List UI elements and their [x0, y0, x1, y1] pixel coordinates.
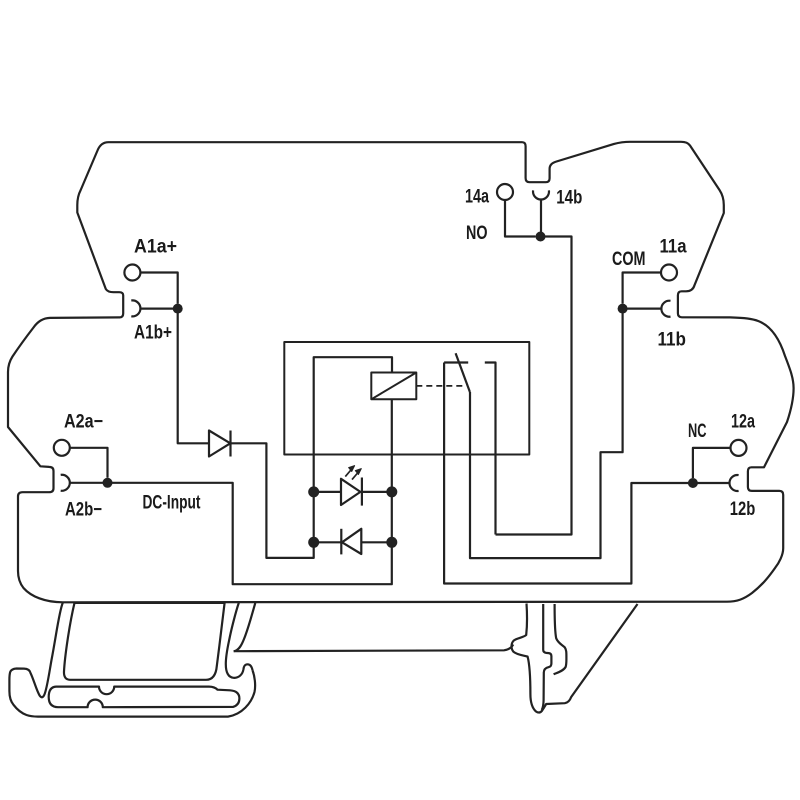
- relay box: [284, 342, 529, 455]
- terminal cup A2b: [61, 475, 70, 491]
- svg-text:A1a+: A1a+: [134, 237, 177, 258]
- din rail foot hook tip: [226, 603, 253, 678]
- terminal 11a: [661, 265, 677, 281]
- wire 14b to junction: [540, 200, 542, 237]
- LED junction top-right: [386, 486, 397, 497]
- svg-text:A2b−: A2b−: [65, 500, 102, 521]
- terminal cup 11b: [661, 301, 670, 317]
- housing body outline: [8, 142, 794, 603]
- terminal cup A1b: [131, 300, 140, 316]
- wire diode row: [314, 541, 392, 543]
- terminal 12a: [731, 440, 747, 456]
- diode V1: [209, 431, 230, 457]
- rail connect line: [234, 645, 514, 652]
- junction A1: [173, 304, 183, 314]
- wire LED block left vertical: [313, 492, 315, 542]
- LED junction top-left: [308, 486, 319, 497]
- terminal A1a: [124, 265, 140, 281]
- terminal cup 14b: [533, 190, 549, 199]
- diode V1 cathode bar: [229, 431, 231, 457]
- svg-text:14a: 14a: [465, 187, 489, 208]
- junction NC: [688, 478, 698, 488]
- LED V2 triangle: [341, 479, 360, 505]
- svg-text:12b: 12b: [730, 499, 756, 520]
- svg-text:11a: 11a: [660, 237, 687, 258]
- din latch inner line 1: [542, 604, 552, 710]
- dashed actuator line: [416, 385, 466, 387]
- wire 14a to junction: [505, 200, 536, 237]
- wire 12a to junction: [693, 448, 731, 478]
- LED arrow 1: [345, 466, 354, 477]
- junction NO: [536, 232, 546, 242]
- LED junction bottom-left: [308, 537, 319, 548]
- svg-text:DC-Input: DC-Input: [143, 493, 201, 514]
- wire coil top lead loop: [314, 357, 392, 487]
- wire NC junction to 12b: [693, 482, 730, 484]
- wire diode to LED block: [231, 443, 314, 558]
- din latch inner line 2: [554, 604, 567, 674]
- wire DC input: [108, 483, 392, 584]
- wire COM junction to 11b: [623, 308, 662, 310]
- din rail foot fin: [234, 603, 256, 651]
- wire 11a to junction: [623, 273, 661, 304]
- LED V2 bar: [361, 478, 363, 506]
- svg-text:COM: COM: [612, 249, 646, 270]
- wire COM loop to lever: [470, 309, 623, 558]
- switch lever: [456, 353, 470, 392]
- svg-text:A1b+: A1b+: [134, 323, 172, 344]
- din latch outer: [511, 604, 637, 713]
- junction A2: [103, 478, 113, 488]
- svg-text:NC: NC: [688, 421, 707, 442]
- switch NO bracket: [485, 363, 496, 535]
- wire A1 junction to diode: [178, 309, 209, 444]
- wire NO loop to switch: [496, 237, 572, 535]
- din rail foot inner panel: [64, 603, 225, 680]
- relay coil K1: [371, 373, 416, 400]
- coil diagonal: [371, 373, 416, 400]
- svg-text:NO: NO: [466, 223, 488, 244]
- din rail foot outer: [9, 603, 255, 717]
- svg-text:14b: 14b: [556, 188, 582, 209]
- junction COM: [618, 304, 628, 314]
- diode V3 cathode bar: [340, 529, 342, 555]
- wire A2a to junction: [70, 448, 108, 478]
- terminal A2a: [54, 440, 70, 456]
- din rail foot slot: [49, 687, 240, 708]
- diode V3 triangle: [342, 529, 361, 554]
- wire A1a to junction: [140, 273, 177, 304]
- terminal cup 12b: [729, 475, 738, 491]
- svg-text:11b: 11b: [658, 330, 687, 351]
- wire LED block right vertical: [391, 492, 393, 542]
- wire LED row: [314, 491, 392, 493]
- switch common bar: [444, 361, 468, 363]
- LED junction bottom-right: [386, 537, 397, 548]
- LED arrow 2: [352, 469, 361, 480]
- wire coil bottom lead: [391, 399, 393, 487]
- svg-text:A2a−: A2a−: [64, 412, 103, 433]
- wire NC loop to switch: [444, 363, 693, 584]
- wire A1b to junction: [140, 308, 177, 310]
- terminal 14a: [497, 184, 513, 200]
- svg-text:12a: 12a: [731, 411, 755, 432]
- wire A2b to junction: [70, 482, 108, 484]
